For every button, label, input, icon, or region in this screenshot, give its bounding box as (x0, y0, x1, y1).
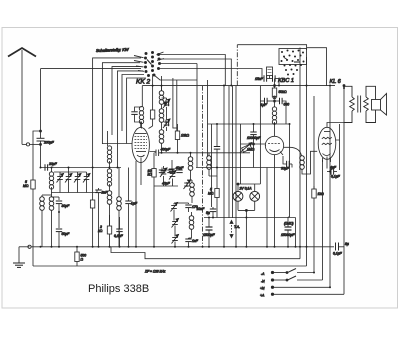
svg-text:1500µF: 1500µF (203, 233, 215, 237)
coil antenna L1 (40, 195, 52, 247)
capacitor osc grid padding (131, 107, 141, 122)
svg-text:40µF: 40µF (176, 166, 185, 170)
svg-text:ZF = 128 kHz: ZF = 128 kHz (144, 270, 166, 274)
wire tube2 cathode down (274, 160, 276, 247)
wire IF2 net (174, 180, 192, 247)
electrolytic 1500uF (203, 218, 215, 247)
capacitor IF2 tune (185, 205, 197, 209)
wire osc coupling net (162, 98, 178, 131)
wire switch left arm 4 (118, 71, 144, 168)
resistor 50kOhm (272, 79, 287, 100)
wire vertical x152 below switch (152, 74, 154, 110)
wire switch left arm 5 (122, 75, 144, 132)
coil IF1 secondary (188, 153, 193, 180)
wire lamps top rail (238, 183, 260, 185)
wire supply corner x330 (329, 160, 331, 287)
wire output plate top (327, 123, 344, 128)
wire supply corner x306 (306, 57, 308, 266)
wire osc section verticals (99, 131, 120, 247)
capacitor 0.5uF top row a (159, 168, 165, 173)
wire vertical x260 (259, 86, 261, 185)
antenna (8, 48, 36, 144)
tuning gang trimmer 2 (65, 174, 72, 183)
trimmer IF1a (160, 168, 167, 177)
battery terminal +A (260, 293, 344, 297)
wire tuner bus y167 (41, 167, 122, 169)
output tube AL2 (318, 127, 336, 168)
wire supply corner x322 (322, 160, 324, 280)
wire switch left arm 2 (102, 63, 140, 144)
node bus right dot (343, 85, 345, 87)
capacitor 15nF a (255, 75, 267, 81)
capacitor detector bypass (214, 124, 220, 168)
svg-text:8µ: 8µ (345, 242, 349, 246)
transformer core (358, 96, 361, 113)
resistor osc padder (90, 193, 94, 247)
svg-text:1µF: 1µF (261, 103, 268, 107)
wire detector rail y124 (208, 123, 291, 125)
wire switch right arm 5 (154, 75, 197, 80)
wire antenna to coupling cap (22, 143, 42, 146)
coil IF2 bottom (189, 212, 194, 238)
electrolytic 15000uF right (281, 217, 295, 247)
svg-text:MΩ: MΩ (23, 184, 29, 188)
speaker (372, 94, 387, 116)
svg-text:+N: +N (260, 287, 265, 291)
switch KK2 contact cluster (134, 51, 164, 76)
wire switch right arm 4 (158, 69, 262, 78)
svg-text:KBC 1: KBC 1 (278, 78, 294, 84)
wire x289 down (288, 147, 290, 217)
svg-text:0,1µF: 0,1µF (333, 252, 343, 256)
svg-text:T.A.: T.A. (234, 225, 240, 229)
wire vertical x162 below switch (161, 76, 163, 91)
trimmer detector a (171, 203, 178, 212)
trimmer osc 1 (163, 99, 170, 108)
wire lamps bottom rail (238, 210, 255, 246)
capacitor 15nF b (267, 75, 279, 86)
svg-text:1kΩ: 1kΩ (318, 192, 325, 196)
wire KL6 drop (329, 86, 331, 161)
coil AF grid choke (272, 101, 276, 137)
capacitor 0.1uF osc cathode (114, 217, 124, 247)
svg-text:KK 2: KK 2 (136, 79, 150, 86)
wire tube1 grid top (140, 122, 142, 128)
lamp dial left (233, 184, 243, 210)
svg-text:1µF: 1µF (131, 202, 138, 206)
svg-text:kΩ: kΩ (98, 229, 103, 233)
svg-text:kΩ: kΩ (148, 173, 153, 177)
wire IF1 net (154, 166, 178, 186)
tuning gang trimmer 3 (74, 174, 81, 183)
trimmer detector c (172, 235, 179, 244)
svg-text:10nF: 10nF (197, 207, 206, 211)
node chassis junction (28, 245, 31, 248)
ground (13, 247, 30, 268)
battery terminal +N (260, 286, 330, 290)
wire switch right arm 2 (158, 59, 231, 86)
svg-text:30µF: 30µF (281, 167, 290, 171)
wire det rail y167 right (196, 167, 283, 169)
wire trimmer top rail (54, 171, 87, 173)
wire IF rail y266 (33, 265, 307, 267)
svg-text:200µF: 200µF (43, 141, 55, 145)
resistor osc grid leak (149, 110, 155, 129)
capacitor output grid (281, 156, 292, 171)
socket plate KBC1 (279, 49, 307, 76)
coil output grid choke (290, 147, 305, 169)
svg-text:-N: -N (261, 280, 265, 284)
resistor 1kOhm output (312, 186, 324, 198)
triode tube ABC1 (265, 136, 283, 160)
wire vertical x202 (202, 86, 204, 247)
wire det rail y176 (209, 168, 217, 177)
trimmer detector b (172, 219, 179, 228)
svg-text:20pF: 20pF (48, 162, 58, 166)
capacitor 40pF IF (169, 160, 184, 172)
svg-text:10kΩ: 10kΩ (181, 134, 189, 138)
wire switch right arm 3 (159, 63, 197, 65)
tuning gang trimmer 1 (57, 174, 64, 183)
lamp dial right (250, 184, 260, 210)
capacitor 1uF grid (260, 98, 275, 107)
switch box Si (267, 67, 273, 79)
wire main HT bus y85.5 (142, 85, 335, 87)
transformer output primary (344, 86, 355, 122)
svg-text:1nF: 1nF (192, 239, 199, 243)
wire output screen (336, 124, 340, 170)
trimmer osc 2 (163, 119, 170, 128)
capacitor osc coupling top (164, 100, 170, 106)
wire vertical x197 below switch (196, 64, 198, 168)
pickup arrow (230, 221, 240, 238)
capacitor osc coupling bottom (166, 120, 169, 126)
wire top loop horizontal (237, 45, 306, 50)
wire tube1 left grid (102, 143, 132, 145)
wire AF rail drop x295 (295, 218, 297, 247)
grid cap connector (273, 96, 276, 99)
coil antenna L2 (49, 168, 54, 247)
wire trimmer stubs (60, 168, 87, 193)
capacitor 500pF grid right (276, 98, 289, 124)
svg-text:400pF: 400pF (161, 148, 172, 152)
capacitor 30pF (52, 197, 71, 212)
svg-text:KL 6: KL 6 (330, 79, 342, 85)
resistor AF grid leak (208, 176, 219, 218)
trimmer IF1b (169, 171, 176, 180)
svg-text:+A: +A (260, 294, 265, 298)
wire supply corner x314 (313, 96, 315, 273)
svg-text:30pF: 30pF (62, 204, 71, 208)
svg-text:50pF: 50pF (62, 232, 71, 236)
node junction dots bottom bus (40, 246, 332, 288)
wire vertical x176 below switch (176, 80, 178, 131)
potentiometer 1MOhm (240, 124, 255, 184)
wire bus corner to osc coil (141, 86, 143, 107)
svg-text:500: 500 (284, 103, 290, 107)
svg-text:15nF: 15nF (255, 77, 264, 81)
coil detector choke (207, 153, 212, 176)
transformer secondary (364, 86, 376, 122)
trimmer IF2a (184, 180, 191, 189)
capacitor 10000pF (247, 124, 261, 168)
wire top loop to socket (236, 45, 238, 86)
node junction dots HT bus (40, 85, 346, 219)
svg-text:Philips 338B: Philips 338B (88, 283, 149, 295)
capacitor 0.5uF top row b (167, 170, 173, 173)
wire vertical x172 below switch (172, 78, 174, 128)
tuning gang trimmer 4 (83, 174, 90, 183)
wire vertical x236 (235, 86, 237, 247)
battery terminal -A (261, 269, 314, 277)
wire tube2 grid left (241, 143, 266, 145)
wire switch right arm 1 (157, 55, 225, 86)
capacitor detector out (185, 239, 198, 243)
capacitor 400pF avc (156, 148, 171, 157)
wire AVC rail y154 (150, 152, 156, 153)
coil oscillator anode L6 (159, 86, 164, 153)
wire vertical x207 (207, 80, 209, 156)
capacitor 2nF osc (95, 188, 108, 200)
wire tube2 plate to IF (284, 124, 290, 147)
svg-text:2V 0,1A: 2V 0,1A (239, 187, 253, 191)
capacitor 20pF antenna series (45, 162, 58, 171)
wire AF rail y217 (204, 217, 296, 219)
wire supply corner x344 (343, 86, 345, 295)
resistor 5 MOhm (23, 130, 42, 247)
wire output grid (302, 151, 317, 174)
resistor 2kOhm (98, 215, 112, 234)
wire vertical x211 (211, 124, 213, 207)
svg-text:4µF: 4µF (330, 166, 337, 170)
wire vertical x229 (228, 86, 230, 219)
wire grid return x267 (266, 168, 268, 247)
capacitor 0.1uF in bus right (336, 243, 345, 251)
wire switch left arm 3 (112, 67, 140, 135)
capacitor 5uF AF (197, 207, 217, 218)
wire hum bus y252 (111, 247, 300, 259)
capacitor 50pF (56, 212, 70, 247)
wire supply corner x300 (299, 48, 301, 259)
coupling capacitor 200pF (37, 69, 55, 168)
svg-text:MΩ: MΩ (208, 192, 214, 196)
node lamp bottom dot (245, 209, 247, 211)
resistor 10kOhm (175, 124, 189, 153)
battery terminal -N (261, 276, 323, 284)
svg-text:5µ: 5µ (206, 211, 210, 215)
wire main bottom bus (31, 246, 334, 248)
wire antenna feed to band switch (41, 68, 142, 70)
svg-text:1MΩ: 1MΩ (247, 148, 255, 152)
wire x126 avc down (127, 78, 146, 144)
capacitor 0.1uF output top (327, 166, 341, 179)
svg-text:(1MΩ): (1MΩ) (284, 222, 294, 226)
coil osc grid L5 (139, 106, 143, 128)
coil oscillator L3 (107, 146, 112, 247)
wire socket loop right (307, 48, 327, 86)
wire switch left arm 1 (93, 58, 141, 193)
wire vertical x224 (223, 86, 225, 247)
coil IF2 top (190, 180, 195, 203)
coil oscillator L4 (117, 194, 122, 247)
svg-text:Ω: Ω (81, 258, 84, 262)
svg-text:0,1µF: 0,1µF (331, 175, 341, 179)
wire trimmer bottom rail (52, 190, 98, 193)
capacitor 0.5uF top row c (176, 170, 182, 173)
resistor 500 Ohm (75, 247, 79, 266)
node lamp rail dot (237, 183, 239, 185)
svg-text:10000µF: 10000µF (247, 136, 261, 140)
IF transformer 1 resistor 10k (148, 153, 157, 247)
capacitor 1uF pad (125, 168, 138, 247)
wire vertical x232 (232, 86, 234, 219)
svg-text:50kΩ: 50kΩ (279, 90, 287, 94)
svg-text:0,1µF: 0,1µF (114, 234, 124, 238)
wire rail corner left (32, 247, 34, 266)
octode tube AK2 (132, 127, 149, 246)
svg-text:15000µF: 15000µF (281, 233, 295, 237)
